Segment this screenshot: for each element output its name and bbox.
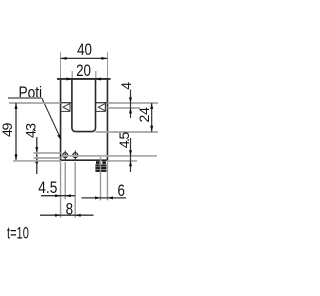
extension line, body left above — [60, 52, 62, 78]
svg-text:40: 40 — [77, 42, 92, 59]
optical axis line through left arm — [61, 102, 72, 104]
svg-text:6: 6 — [117, 183, 124, 200]
optical axis extension left — [9, 102, 61, 104]
svg-text:4.3: 4.3 — [23, 123, 39, 138]
extension below, circle 1 — [64, 162, 66, 199]
dimension 6 line (outside arrows) — [82, 196, 127, 199]
optical marker triangle, right arm — [96, 103, 106, 111]
extension below, body left — [60, 160, 62, 218]
optical marker triangle, left arm — [61, 103, 70, 111]
svg-text:24: 24 — [136, 107, 152, 123]
Poti leader line with arrow — [42, 98, 61, 140]
extension stub, slot left above — [71, 71, 73, 78]
svg-text:t=10: t=10 — [7, 223, 29, 242]
circle top tangent extension left — [34, 152, 61, 154]
M8 connector stud — [95, 161, 106, 172]
svg-text:20: 20 — [76, 63, 91, 80]
potentiometer hole (left circle with center cross) — [62, 151, 69, 160]
U-slot (20 mm opening) — [72, 79, 96, 132]
svg-text:8: 8 — [66, 201, 73, 218]
extension below, circle 2 — [74, 162, 76, 218]
body top edge / 20-dim line — [57, 78, 111, 80]
dimension 4 line (right top, outside arrows) — [129, 90, 132, 119]
svg-text:4.5: 4.5 — [38, 179, 57, 197]
optical axis extension right — [107, 102, 158, 104]
slot bottom extension right — [96, 131, 159, 133]
dimension 24 line — [150, 103, 153, 132]
body bottom extension right — [107, 160, 137, 162]
extension below, body right — [106, 160, 108, 200]
extension stub, slot right above — [95, 71, 97, 78]
optical axis line through right arm — [96, 102, 108, 104]
dimension 8 line (outside arrows) — [40, 214, 94, 217]
body outline (fork sensor housing) — [61, 79, 108, 160]
dimension 4.3 line (circle diameter, outside arrows) — [35, 137, 38, 174]
svg-text:4.5: 4.5 — [116, 132, 132, 149]
LED hole (right circle with center cross) — [72, 151, 79, 160]
svg-text:Poti: Poti — [19, 84, 43, 102]
svg-text:4: 4 — [118, 82, 134, 90]
Poti label underline — [8, 97, 42, 99]
extension line, body right above — [107, 52, 109, 78]
svg-text:49: 49 — [0, 122, 15, 137]
dimension 40 line — [61, 57, 108, 60]
extension below, connector centre — [100, 157, 102, 200]
circle bottom tangent extension left — [34, 157, 61, 159]
dimension 49 line — [15, 103, 18, 160]
dimension 4.5 bottom line (outside arrows) — [41, 194, 75, 197]
lower optical window extension right — [107, 107, 140, 109]
dimension 4.5 right line (outside arrows) — [129, 138, 132, 172]
dimension 20 arrows (outside) — [57, 77, 111, 80]
body bottom extension left — [13, 160, 61, 162]
circle-centers line through body — [62, 155, 158, 157]
